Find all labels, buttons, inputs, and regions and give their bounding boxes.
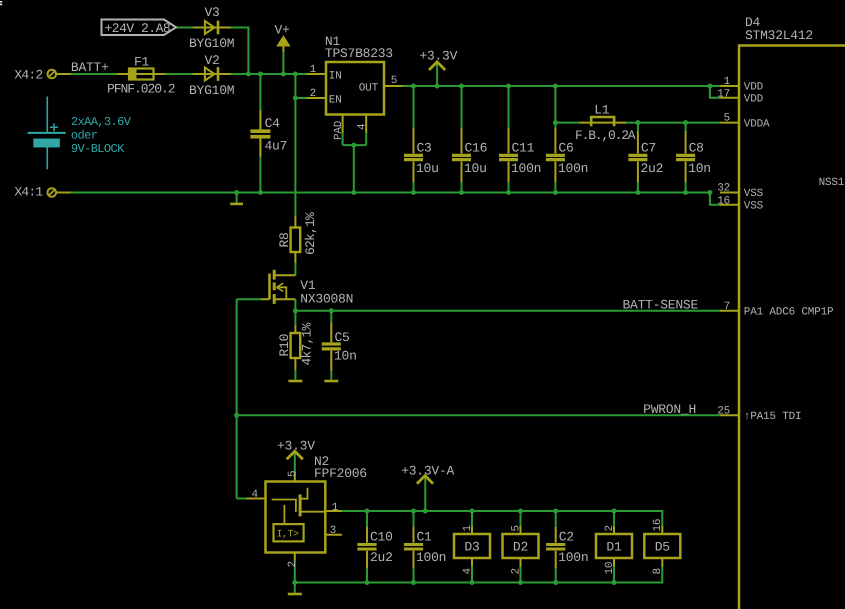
svg-text:VSS: VSS <box>744 200 764 212</box>
svg-text:oder: oder <box>71 129 98 143</box>
svg-text:X4:2: X4:2 <box>14 68 42 83</box>
svg-text:BATT-SENSE: BATT-SENSE <box>622 298 698 313</box>
svg-text:PFNF.020.2: PFNF.020.2 <box>107 82 175 97</box>
svg-text:2u2: 2u2 <box>370 550 393 565</box>
svg-text:4u7: 4u7 <box>265 138 288 153</box>
svg-text:16: 16 <box>717 196 730 208</box>
svg-text:3: 3 <box>330 525 336 537</box>
svg-text:C6: C6 <box>558 141 573 156</box>
svg-text:TPS7B8233: TPS7B8233 <box>325 46 393 61</box>
svg-text:D5: D5 <box>655 540 670 555</box>
svg-text:+3.3V: +3.3V <box>277 438 315 453</box>
svg-text:1: 1 <box>332 502 339 514</box>
svg-text:V2: V2 <box>205 53 220 68</box>
svg-text:C8: C8 <box>689 141 704 156</box>
svg-text:16: 16 <box>652 519 664 532</box>
svg-text:4: 4 <box>357 123 369 130</box>
svg-text:PA1 ADC6 CMP1P: PA1 ADC6 CMP1P <box>744 307 834 319</box>
svg-text:7: 7 <box>724 301 730 313</box>
svg-text:2: 2 <box>287 561 299 567</box>
svg-text:R8: R8 <box>277 232 292 247</box>
svg-text:D1: D1 <box>606 540 622 555</box>
svg-text:25: 25 <box>717 405 730 417</box>
svg-text:VSS: VSS <box>744 188 764 200</box>
svg-text:5: 5 <box>287 471 299 477</box>
svg-text:100n: 100n <box>558 161 588 176</box>
svg-text:PWRON_H: PWRON_H <box>643 402 696 417</box>
svg-text:4: 4 <box>252 489 259 501</box>
svg-text:10u: 10u <box>416 161 439 176</box>
svg-text:5: 5 <box>511 525 523 531</box>
svg-text:V+: V+ <box>275 23 291 38</box>
svg-text:4: 4 <box>462 568 474 575</box>
svg-text:5: 5 <box>724 113 730 125</box>
svg-text:C11: C11 <box>512 141 535 156</box>
svg-text:FPF2006: FPF2006 <box>314 466 367 481</box>
svg-text:10: 10 <box>604 562 616 575</box>
svg-text:D2: D2 <box>513 540 528 555</box>
svg-text:62k,1%: 62k,1% <box>303 212 318 255</box>
svg-text:100n: 100n <box>416 550 446 565</box>
svg-text:BYG10M: BYG10M <box>189 36 234 51</box>
svg-text:NSS1: NSS1 <box>819 177 845 189</box>
svg-text:L1: L1 <box>594 103 610 118</box>
svg-text:C7: C7 <box>641 141 656 156</box>
svg-text:2u2: 2u2 <box>641 161 664 176</box>
svg-text:VDD: VDD <box>744 82 764 94</box>
svg-text:F.B.,0.2A: F.B.,0.2A <box>575 128 636 143</box>
svg-text:1: 1 <box>310 64 317 76</box>
svg-text:10n: 10n <box>688 161 711 176</box>
svg-text:2: 2 <box>310 88 316 100</box>
svg-text:100n: 100n <box>511 161 541 176</box>
svg-text:C10: C10 <box>370 530 393 545</box>
svg-text:2: 2 <box>511 568 523 574</box>
svg-text:VDDA: VDDA <box>744 118 770 130</box>
svg-text:BATT+: BATT+ <box>71 60 109 75</box>
svg-text:↑PA15 TDI: ↑PA15 TDI <box>744 411 802 423</box>
svg-text:100n: 100n <box>558 550 588 565</box>
svg-text:+3.3V-A: +3.3V-A <box>401 464 454 479</box>
svg-text:17: 17 <box>717 89 730 101</box>
svg-text:IN: IN <box>329 71 342 83</box>
svg-text:10u: 10u <box>464 161 487 176</box>
svg-text:1: 1 <box>724 76 731 88</box>
svg-text:C2: C2 <box>559 530 574 545</box>
svg-text:I,T>: I,T> <box>277 530 300 541</box>
svg-text:5: 5 <box>391 75 397 87</box>
svg-text:C5: C5 <box>335 330 350 345</box>
svg-text:32: 32 <box>717 183 730 195</box>
svg-text:F1: F1 <box>134 55 150 70</box>
svg-text:BYG10M: BYG10M <box>189 83 234 98</box>
svg-text:1: 1 <box>462 525 474 532</box>
svg-text:R10: R10 <box>277 334 292 357</box>
svg-text:8: 8 <box>652 568 664 574</box>
svg-text:2: 2 <box>604 525 616 531</box>
svg-text:V3: V3 <box>205 5 220 20</box>
svg-text:D3: D3 <box>464 540 479 555</box>
svg-text:10n: 10n <box>334 348 357 363</box>
svg-text:+24V 2.A8: +24V 2.A8 <box>105 21 171 36</box>
svg-text:+3.3V: +3.3V <box>419 48 457 63</box>
svg-text:4k7,1%: 4k7,1% <box>300 322 315 365</box>
svg-text:C3: C3 <box>417 141 432 156</box>
svg-text:NX3008N: NX3008N <box>300 291 353 306</box>
svg-text:C1: C1 <box>417 530 433 545</box>
svg-text:PAD: PAD <box>333 120 345 140</box>
svg-text:VDD: VDD <box>744 94 764 106</box>
svg-text:OUT: OUT <box>359 82 379 94</box>
svg-text:C16: C16 <box>465 141 488 156</box>
svg-text:STM32L412: STM32L412 <box>745 28 813 43</box>
svg-text:X4:1: X4:1 <box>14 185 43 200</box>
svg-text:EN: EN <box>329 95 342 107</box>
svg-text:9V-BLOCK: 9V-BLOCK <box>71 142 125 156</box>
svg-text:C4: C4 <box>265 116 281 131</box>
svg-text:2xAA,3.6V: 2xAA,3.6V <box>71 115 132 129</box>
